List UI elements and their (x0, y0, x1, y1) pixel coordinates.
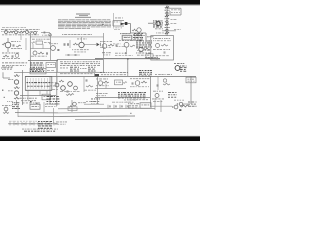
wire vert x146 top (145, 33, 147, 40)
width coil box (30, 68, 54, 74)
label row above IF strip (62, 33, 92, 36)
caption text rows (22, 129, 58, 132)
wire bus y76.4 (25, 75, 196, 77)
label top of bottom-middle (84, 101, 104, 104)
wire vert x127 (127, 59, 129, 77)
wire y112.7 mid (58, 112, 100, 114)
horiz osc tubes V9 V10 (50, 77, 80, 95)
wire bus y97.5 (95, 97, 150, 99)
wire vert x103 (103, 33, 105, 59)
hold control blob (47, 96, 61, 104)
wire y116 long (60, 115, 135, 117)
labels above bus mid (60, 73, 99, 76)
ion trap box (186, 77, 196, 83)
wire y112.5 left (15, 112, 58, 114)
capacitor C1 antenna (41, 32, 52, 37)
antenna terminal row (108, 102, 131, 109)
tube V6 video amp (115, 40, 135, 56)
labels above bus y76 (100, 72, 128, 75)
pilot light cluster (2, 105, 12, 113)
decoupling caps (65, 54, 80, 56)
tube V13 low cluster (152, 91, 164, 102)
tube V11 AGC (96, 79, 109, 89)
node dot left of tuner (102, 24, 103, 25)
wire vert x191 low (190, 76, 192, 104)
convergence box (127, 99, 151, 108)
wire vert x157 mid (156, 55, 158, 60)
tube V4 2nd IF (72, 37, 100, 52)
wire vert x30 (29, 33, 31, 72)
sound takeoff box (115, 80, 128, 85)
terminal strip TS1 (8, 121, 58, 126)
wire vert x155 low (154, 98, 156, 110)
converter cluster (133, 33, 154, 40)
wire bus y95.5 left (20, 95, 56, 97)
labels near bus (145, 56, 158, 59)
deflection yoke box (25, 77, 52, 91)
labels left of blob (96, 93, 108, 96)
HV filter parts (155, 29, 181, 34)
title heading line 2 (79, 14, 88, 17)
sparse labels below (124, 100, 136, 103)
bleeder resistor chain (165, 7, 177, 34)
wire vert x161 low (160, 100, 162, 112)
filter choke dark blob (118, 92, 146, 98)
HV cage box (167, 8, 181, 15)
yoke leads (25, 91, 52, 100)
tube V5 video det (100, 41, 121, 55)
labels top left low (2, 67, 13, 70)
wire right of title (113, 13, 115, 27)
tube V12 audio out (130, 78, 149, 87)
wire vert x150 low (150, 76, 152, 107)
wire HV vertical (166, 6, 168, 37)
trap coil L5 (31, 51, 48, 57)
wire y119.5 (75, 118, 130, 120)
sync separator cluster (136, 41, 153, 59)
focus control box (151, 36, 174, 60)
mixer V1 circle (128, 24, 147, 36)
bottom letterbox bar (0, 136, 200, 141)
wire y108.5 long (58, 107, 155, 110)
small label right of strip (56, 122, 67, 125)
dark cluster above bus (139, 70, 152, 77)
wire vert x53 (53, 108, 55, 123)
audio output cluster blob (30, 63, 44, 72)
speaker jack cluster (172, 100, 189, 109)
wire vert x97 low (97, 77, 99, 104)
tuner input arrows (113, 18, 127, 30)
junction on bus (127, 58, 129, 60)
interlock cluster (68, 100, 86, 112)
dark cluster x15 y105 (12, 102, 20, 109)
wire y116 left (18, 115, 60, 117)
coupling network (84, 79, 100, 104)
wire bus y58.7 (95, 58, 160, 60)
HV rectifier blob (148, 21, 163, 28)
wire vert x21 top (20, 33, 22, 40)
dot contact (2, 90, 5, 98)
boost circuit parts (157, 77, 170, 90)
title heading line 3 (75, 16, 91, 19)
labels below yoke (20, 98, 38, 104)
resistor R3 network (32, 39, 51, 49)
oscillator box (120, 33, 132, 40)
IF caps C5 C6 (64, 40, 78, 48)
CRT socket cluster (177, 102, 197, 111)
title note paragraph (58, 20, 111, 29)
wire vert x57 (56, 60, 58, 106)
wire y48.5 short (30, 48, 51, 50)
wire vert x50 low (49, 77, 51, 104)
wire vert x18 low (17, 104, 19, 117)
stray dot bottom (130, 113, 132, 114)
linearity box (42, 94, 51, 100)
discriminator parts (2, 53, 20, 59)
tube V3 1st IF (49, 43, 60, 50)
parts list box (57, 60, 103, 73)
wire bus y72.3 left (14, 71, 57, 73)
output transformer T1 (46, 63, 56, 68)
power transformer cluster (22, 102, 58, 112)
wire bus y60.5 left (28, 60, 58, 62)
rectifier stack blob (38, 121, 52, 129)
wire bus y88.5 (95, 88, 126, 90)
wire vert x22 left (22, 70, 24, 105)
tube V7 damper dark cluster (174, 63, 187, 71)
label above bus right (155, 73, 172, 76)
wire y106 right (150, 105, 172, 107)
vert osc chain V8 (7, 75, 20, 105)
wire bus y37 (30, 36, 104, 38)
label row faint topleft (2, 26, 26, 29)
title heading line 1 (76, 13, 90, 16)
wire vert x50 top (50, 33, 52, 61)
video peaking cluster (120, 33, 153, 40)
top letterbox bar (0, 0, 200, 5)
tube V2 sound IF (2, 38, 26, 52)
volume control labels (1, 63, 27, 79)
RF coil chain L1 L2 L3 (1, 29, 40, 35)
dark squiggle right (168, 92, 177, 98)
wire vert x84 low (83, 77, 85, 92)
